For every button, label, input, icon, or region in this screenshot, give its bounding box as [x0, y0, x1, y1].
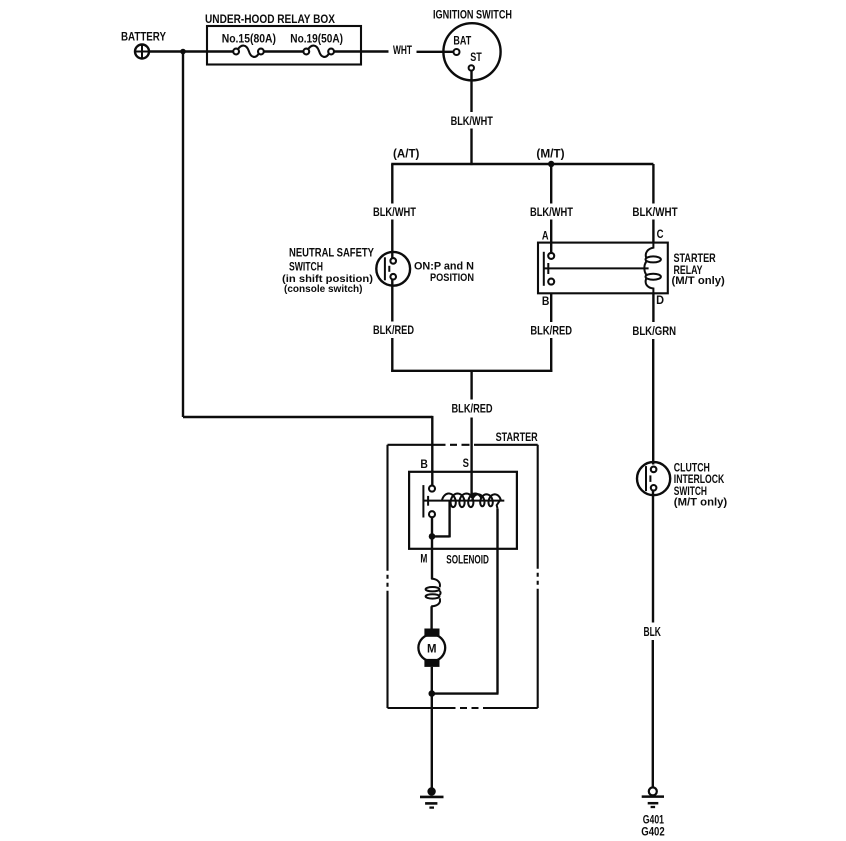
label UNDER-HOOD RELAY BOX — [205, 12, 335, 26]
label BAT — [453, 36, 471, 48]
svg-text:BLK/RED: BLK/RED — [530, 323, 572, 337]
wire relay coil branch to terminal C — [652, 220, 654, 244]
wire solenoid M contact to junction — [431, 517, 433, 536]
svg-text:No.15(80A): No.15(80A) — [222, 33, 276, 45]
svg-text:No.19(50A): No.19(50A) — [290, 33, 343, 45]
svg-text:POSITION: POSITION — [430, 272, 474, 284]
svg-text:(M/T only): (M/T only) — [672, 275, 725, 287]
wire starter S drop — [470, 418, 472, 496]
wire top bus — [391, 163, 653, 165]
svg-text:BLK/RED: BLK/RED — [373, 323, 414, 337]
wire BLK to ground G401 — [652, 640, 654, 788]
solenoid plunger axis wire — [423, 500, 504, 502]
svg-text:G401: G401 — [643, 815, 665, 827]
svg-text:SWITCH: SWITCH — [289, 260, 323, 274]
relay terminal A contact — [548, 253, 554, 259]
label terminal C — [657, 229, 664, 241]
svg-text:UNDER-HOOD RELAY BOX: UNDER-HOOD RELAY BOX — [205, 12, 335, 26]
label BLK/WHT A/T branch — [373, 205, 417, 219]
solenoid pull-in winding — [442, 494, 482, 508]
svg-text:BLK/WHT: BLK/WHT — [451, 114, 494, 128]
wire winding to motor — [430, 606, 432, 630]
relay terminal B contact — [548, 279, 554, 285]
label ST — [470, 52, 482, 64]
label IGNITION SWITCH — [433, 8, 512, 22]
starter relay coil — [644, 243, 661, 294]
label RELAY — [674, 263, 703, 277]
label (A/T) — [393, 148, 420, 160]
wire relay D down — [652, 293, 654, 322]
wire WHT to ignition switch BAT — [417, 51, 454, 53]
label BLK/RED starter feed — [452, 402, 493, 416]
label (M/T only) clutch — [674, 496, 728, 508]
svg-text:NEUTRAL SAFETY: NEUTRAL SAFETY — [289, 246, 374, 260]
label M (solenoid) — [420, 554, 427, 566]
ground G401 G402 — [642, 787, 664, 807]
svg-text:ON:P and N: ON:P and N — [414, 260, 474, 272]
label No.15(80A) — [222, 33, 276, 45]
wire neutral safety switch down — [391, 279, 393, 321]
svg-text:SOLENOID: SOLENOID — [446, 552, 489, 566]
label terminal A — [542, 230, 549, 242]
junction node S to windings — [470, 493, 476, 499]
svg-text:STARTER: STARTER — [496, 430, 538, 444]
svg-text:BATTERY: BATTERY — [121, 29, 166, 43]
starter motor M1 — [418, 629, 445, 667]
label NEUTRAL SAFETY — [289, 246, 374, 260]
label BATTERY — [121, 29, 166, 43]
wire starter case to ground — [431, 694, 433, 788]
wire winding return riser — [432, 501, 450, 538]
label BLK — [644, 624, 662, 639]
wire relay B down — [550, 293, 552, 322]
wire ST down lower segment — [470, 129, 472, 166]
wire ST down upper segment — [470, 71, 472, 112]
label ON:P and N — [414, 260, 474, 272]
svg-text:M: M — [420, 554, 427, 566]
svg-text:(M/T only): (M/T only) — [674, 496, 728, 508]
svg-text:D: D — [656, 295, 664, 307]
wire relay B to lower bus — [550, 338, 552, 372]
wire battery feed horizontal to starter — [183, 416, 432, 418]
junction node solenoid M — [429, 533, 436, 540]
label SWITCH (clutch) — [674, 484, 707, 498]
svg-text:BAT: BAT — [453, 36, 471, 48]
svg-text:BLK/GRN: BLK/GRN — [632, 324, 676, 338]
neutral safety switch — [376, 252, 410, 286]
fuse No.15(80A) — [233, 46, 264, 57]
relay contact bar — [543, 252, 545, 286]
relay contact dash — [547, 263, 549, 274]
svg-text:BLK/WHT: BLK/WHT — [632, 205, 678, 219]
label (M/T) — [536, 148, 564, 160]
svg-text:M: M — [427, 641, 437, 655]
battery positive terminal symbol — [135, 45, 149, 59]
svg-text:(A/T): (A/T) — [393, 148, 420, 160]
starter relay box — [538, 243, 668, 294]
svg-text:BLK/WHT: BLK/WHT — [373, 205, 417, 219]
svg-text:BLK/RED: BLK/RED — [452, 402, 493, 416]
label terminal S (solenoid) — [463, 458, 470, 470]
label (M/T only) relay — [672, 275, 725, 287]
svg-text:IGNITION SWITCH: IGNITION SWITCH — [433, 8, 512, 22]
svg-text:A: A — [542, 230, 549, 242]
solenoid contact bar — [422, 485, 424, 517]
wire fuse to WHT label — [334, 50, 389, 52]
svg-text:WHT: WHT — [393, 45, 412, 57]
wire battery down to starter B feed — [182, 52, 184, 418]
label POSITION — [430, 272, 474, 284]
label BLK/WHT M/T branch — [530, 205, 574, 219]
relay armature link wire — [544, 267, 649, 269]
wire battery to relay box fuse — [149, 50, 234, 52]
label BLK/WHT relay coil branch — [632, 205, 678, 219]
label G401 — [643, 815, 665, 827]
label INTERLOCK — [674, 472, 725, 486]
solenoid terminal M contact — [429, 511, 435, 517]
label (in shift position) — [282, 274, 373, 285]
label No.19(50A) — [290, 33, 343, 45]
fuse No.19(50A) — [303, 46, 334, 57]
svg-text:(console switch): (console switch) — [284, 284, 363, 295]
label BLK/RED A/T branch — [373, 323, 414, 337]
wire motor to ground junction — [431, 667, 433, 694]
wire hold-in winding return — [432, 509, 499, 694]
wire relay D to clutch interlock switch — [652, 339, 654, 465]
wire between fuses — [264, 50, 304, 52]
label terminal D — [656, 295, 664, 307]
svg-text:(M/T): (M/T) — [536, 148, 564, 160]
svg-text:BLK/WHT: BLK/WHT — [530, 205, 574, 219]
starter unit boundary box (chain line) — [388, 445, 538, 708]
label BLK/WHT ignition feed — [451, 114, 494, 128]
ignition switch — [443, 23, 500, 80]
svg-text:S: S — [463, 458, 470, 470]
svg-text:G402: G402 — [641, 827, 664, 839]
wire M/T branch to relay terminal A — [550, 220, 552, 254]
label WHT — [393, 45, 412, 57]
under-hood relay box — [207, 26, 361, 65]
wire clutch switch down — [652, 491, 654, 623]
solenoid terminal B contact — [429, 486, 435, 492]
label STARTER (relay) — [674, 251, 716, 265]
wire A/T branch upper — [391, 164, 393, 204]
svg-text:B: B — [420, 459, 428, 471]
wire starter B drop — [431, 416, 433, 486]
svg-text:BLK: BLK — [644, 624, 662, 639]
ignition terminal BAT — [454, 49, 460, 55]
junction node motor ground — [429, 690, 436, 697]
label SWITCH (neutral safety) — [289, 260, 323, 274]
label BLK/RED M/T branch — [530, 323, 572, 337]
svg-text:C: C — [657, 229, 664, 241]
svg-text:ST: ST — [470, 52, 482, 64]
wire relay coil branch upper — [652, 164, 654, 204]
motor field winding — [426, 579, 441, 607]
label SOLENOID — [446, 552, 489, 566]
label BLK/GRN — [632, 324, 676, 338]
ground starter — [420, 787, 444, 807]
wire lower bus to starter S upper — [470, 371, 472, 400]
junction node battery — [180, 49, 186, 55]
solenoid box — [409, 472, 517, 549]
wire A/T branch to neutral safety switch — [391, 220, 393, 259]
junction node M/T branch — [548, 161, 554, 167]
label (console switch) — [284, 284, 363, 295]
label terminal B — [542, 296, 550, 308]
clutch interlock switch — [637, 462, 670, 495]
wire A/T branch to lower bus — [391, 338, 393, 372]
svg-text:B: B — [542, 296, 550, 308]
wire M/T branch upper — [550, 164, 552, 204]
label terminal B (solenoid) — [420, 459, 428, 471]
label CLUTCH — [674, 460, 710, 474]
wire lower bus — [391, 370, 552, 372]
solenoid contact dash — [427, 496, 429, 506]
wire solenoid M down to motor winding — [431, 536, 433, 579]
label G402 — [641, 827, 664, 839]
ignition terminal ST — [469, 65, 474, 70]
label STARTER (box) — [496, 430, 538, 444]
solenoid hold-in winding — [472, 494, 500, 508]
